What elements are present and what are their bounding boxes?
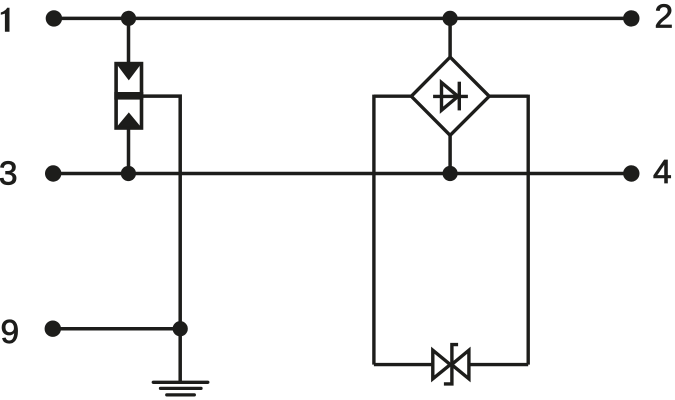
junction node: ground rail at terminal 9 wire: [173, 321, 188, 336]
terminal dot 1: [46, 10, 62, 26]
terminal dot 4: [623, 165, 639, 181]
terminal dot 2: [623, 10, 639, 26]
wire: diamond bottom to middle wire: [448, 135, 452, 174]
wire: top wire down to diode bridge diamond: [448, 18, 452, 58]
wire: terminal 9 to ground rail: [53, 327, 180, 331]
wire: arrester center electrode to ground rail (down past middle wire): [142, 96, 180, 382]
label terminal 1: [1, 8, 10, 32]
wire: diamond left corner to box left side: [374, 94, 411, 97]
svg-text:3: 3: [0, 156, 17, 193]
junction node: middle wire to arrester bottom: [121, 166, 136, 181]
junction node: top wire to diode-bridge branch: [443, 11, 458, 26]
wire: top horizontal net from terminal 1 to terminal 2: [54, 17, 631, 21]
ground symbol: [153, 382, 208, 395]
wire: middle horizontal net from terminal 3 to terminal 4: [53, 172, 631, 176]
wire: box bottom left segment to suppressor: [374, 363, 433, 366]
diode bridge diamond outline: [411, 57, 489, 135]
svg-text:4: 4: [653, 154, 672, 191]
svg-text:9: 9: [1, 314, 20, 351]
diode symbol inside diamond: [433, 82, 468, 111]
terminal dot 9: [45, 321, 61, 337]
wire: box right vertical (crosses middle wire): [527, 95, 530, 365]
bidirectional suppressor diode (TVS): [433, 345, 469, 384]
junction node: middle wire to diode-bridge bottom: [443, 166, 458, 181]
terminal dot 3: [45, 165, 61, 181]
wire: box bottom right segment from suppressor: [469, 363, 528, 366]
junction node: top wire to arrester branch: [121, 11, 136, 26]
wire: diamond right corner to box right side: [489, 94, 528, 97]
gas discharge tube F1 (3-electrode arrester): [114, 64, 143, 128]
wire: arrester bottom to middle wire: [127, 128, 131, 174]
wire: top wire down to gas discharge tube: [127, 18, 131, 63]
wire: box left vertical (crosses middle wire): [372, 95, 375, 365]
svg-text:2: 2: [655, 0, 674, 36]
